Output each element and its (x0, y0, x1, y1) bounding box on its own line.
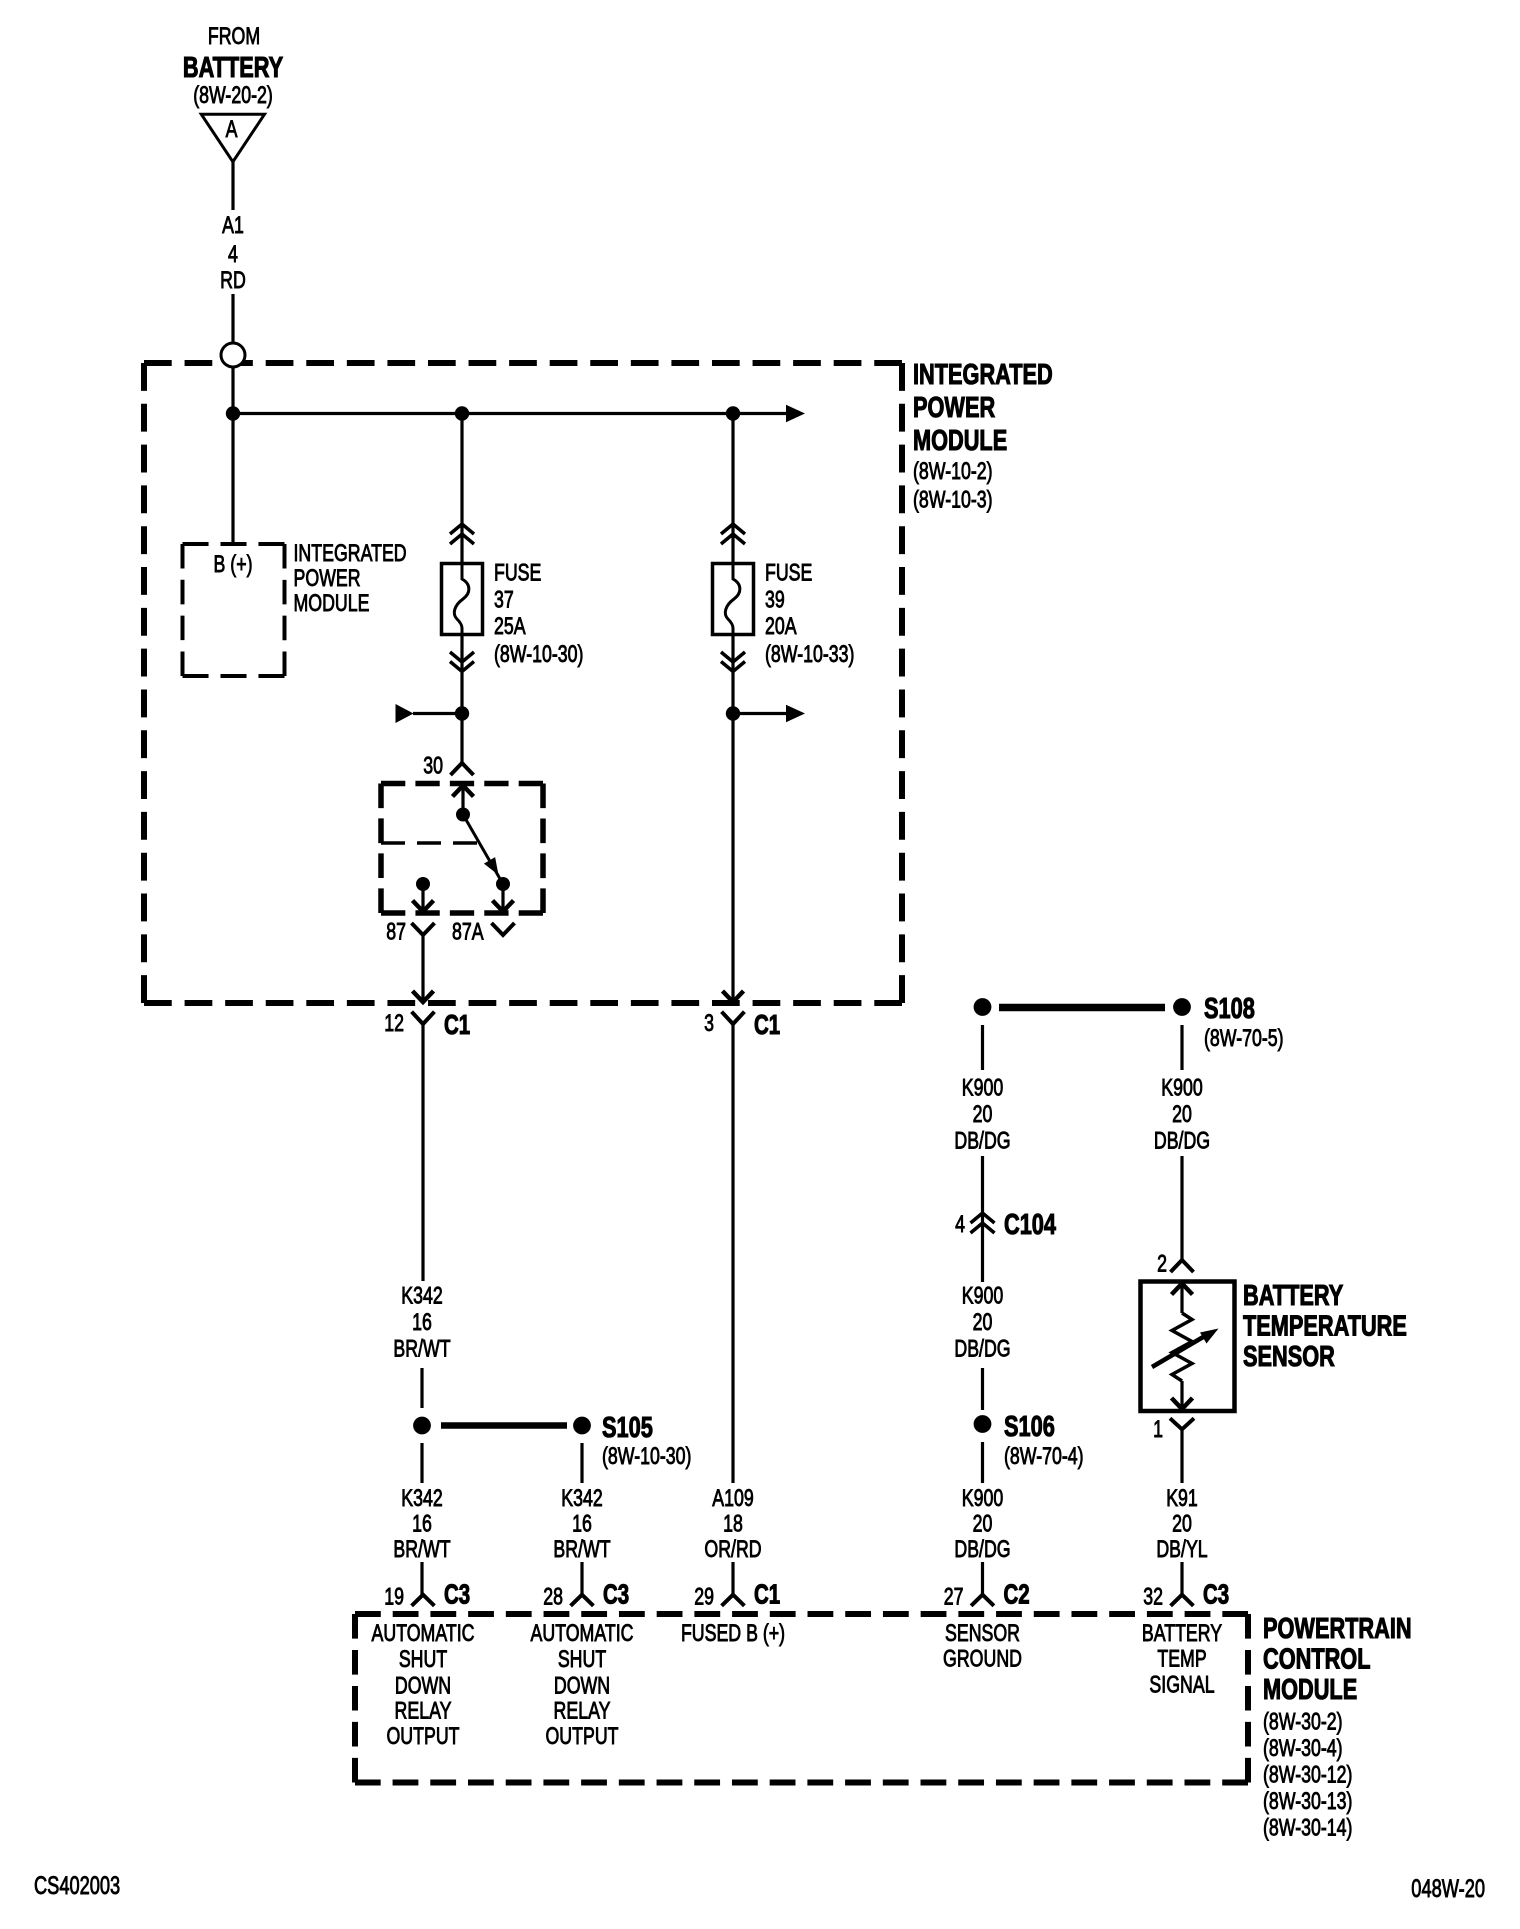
svg-text:FUSED B (+): FUSED B (+) (681, 1620, 785, 1646)
svg-text:C3: C3 (1203, 1580, 1229, 1611)
svg-text:20: 20 (973, 1310, 993, 1336)
svg-text:DB/YL: DB/YL (1156, 1537, 1208, 1563)
svg-text:(8W-10-2): (8W-10-2) (913, 459, 993, 485)
svg-text:(8W-30-4): (8W-30-4) (1263, 1736, 1343, 1762)
svg-text:1: 1 (1153, 1416, 1163, 1442)
svg-text:87: 87 (386, 919, 406, 945)
svg-text:S106: S106 (1004, 1411, 1055, 1443)
svg-text:B (+): B (+) (214, 552, 253, 578)
svg-text:(8W-10-30): (8W-10-30) (494, 642, 583, 668)
svg-text:BATTERY: BATTERY (1142, 1620, 1222, 1646)
svg-text:A1: A1 (222, 213, 244, 239)
svg-text:19: 19 (384, 1584, 404, 1610)
svg-text:C1: C1 (754, 1580, 780, 1611)
svg-text:FUSE: FUSE (494, 560, 541, 586)
svg-text:(8W-10-30): (8W-10-30) (602, 1444, 691, 1470)
svg-text:20A: 20A (765, 613, 797, 639)
svg-text:CS402003: CS402003 (34, 1871, 120, 1900)
svg-text:16: 16 (412, 1310, 432, 1336)
svg-text:20: 20 (973, 1102, 993, 1128)
svg-text:C1: C1 (444, 1010, 470, 1041)
svg-text:DB/DG: DB/DG (954, 1537, 1010, 1563)
svg-text:FROM: FROM (208, 24, 260, 50)
svg-text:(8W-20-2): (8W-20-2) (193, 83, 273, 109)
svg-text:TEMP: TEMP (1157, 1646, 1206, 1672)
svg-text:K900: K900 (962, 1283, 1003, 1309)
svg-text:SENSOR: SENSOR (945, 1620, 1020, 1646)
svg-text:C3: C3 (603, 1580, 629, 1611)
svg-text:39: 39 (765, 587, 785, 613)
svg-text:GROUND: GROUND (943, 1646, 1022, 1672)
svg-text:MODULE: MODULE (294, 591, 370, 617)
svg-text:25A: 25A (494, 613, 526, 639)
svg-text:(8W-70-4): (8W-70-4) (1004, 1444, 1084, 1470)
svg-text:(8W-10-3): (8W-10-3) (913, 487, 993, 513)
svg-text:AUTOMATIC: AUTOMATIC (372, 1620, 475, 1646)
svg-text:RELAY: RELAY (554, 1698, 611, 1724)
svg-text:S108: S108 (1204, 993, 1255, 1025)
svg-text:C3: C3 (444, 1580, 470, 1611)
svg-text:C104: C104 (1004, 1209, 1057, 1241)
svg-text:DB/DG: DB/DG (954, 1336, 1010, 1362)
svg-text:SHUT: SHUT (558, 1647, 606, 1673)
svg-text:OUTPUT: OUTPUT (545, 1724, 618, 1750)
svg-text:OR/RD: OR/RD (704, 1537, 761, 1563)
svg-text:(8W-30-14): (8W-30-14) (1263, 1815, 1352, 1841)
svg-text:2: 2 (1157, 1251, 1167, 1277)
svg-text:4: 4 (955, 1212, 965, 1238)
svg-text:FUSE: FUSE (765, 560, 812, 586)
svg-text:DB/DG: DB/DG (954, 1128, 1010, 1154)
svg-text:20: 20 (1172, 1511, 1192, 1537)
svg-text:37: 37 (494, 587, 514, 613)
svg-text:RELAY: RELAY (395, 1698, 452, 1724)
svg-text:K342: K342 (401, 1283, 442, 1309)
svg-text:DB/DG: DB/DG (1154, 1128, 1210, 1154)
svg-text:DOWN: DOWN (554, 1673, 610, 1699)
svg-text:K91: K91 (1166, 1486, 1198, 1512)
svg-text:SIGNAL: SIGNAL (1149, 1672, 1214, 1698)
svg-text:POWER: POWER (913, 392, 995, 424)
svg-text:DOWN: DOWN (395, 1673, 451, 1699)
svg-text:POWER: POWER (294, 566, 361, 592)
svg-text:S105: S105 (602, 1412, 653, 1444)
svg-text:29: 29 (694, 1584, 714, 1610)
svg-text:20: 20 (1172, 1102, 1192, 1128)
svg-text:BR/WT: BR/WT (393, 1336, 450, 1362)
svg-text:A109: A109 (712, 1486, 753, 1512)
svg-text:INTEGRATED: INTEGRATED (913, 359, 1053, 391)
svg-text:SENSOR: SENSOR (1243, 1341, 1335, 1373)
svg-text:28: 28 (543, 1584, 563, 1610)
svg-text:16: 16 (572, 1511, 592, 1537)
svg-text:POWERTRAIN: POWERTRAIN (1263, 1613, 1412, 1645)
svg-text:(8W-10-33): (8W-10-33) (765, 642, 854, 668)
svg-text:20: 20 (973, 1511, 993, 1537)
svg-text:BR/WT: BR/WT (553, 1537, 610, 1563)
svg-text:30: 30 (423, 753, 443, 779)
svg-text:K342: K342 (561, 1486, 602, 1512)
svg-text:(8W-30-2): (8W-30-2) (1263, 1709, 1343, 1735)
svg-text:MODULE: MODULE (913, 425, 1007, 457)
svg-text:18: 18 (723, 1511, 743, 1537)
svg-text:4: 4 (228, 242, 238, 268)
svg-text:K342: K342 (401, 1486, 442, 1512)
svg-text:RD: RD (220, 268, 246, 294)
svg-text:K900: K900 (962, 1075, 1003, 1101)
svg-text:048W-20: 048W-20 (1411, 1874, 1485, 1903)
svg-text:C1: C1 (754, 1010, 780, 1041)
svg-text:A: A (226, 117, 239, 143)
svg-text:SHUT: SHUT (399, 1647, 447, 1673)
svg-text:CONTROL: CONTROL (1263, 1643, 1370, 1675)
svg-text:TEMPERATURE: TEMPERATURE (1243, 1311, 1407, 1343)
svg-text:K900: K900 (962, 1486, 1003, 1512)
svg-text:BATTERY: BATTERY (183, 52, 283, 84)
svg-text:AUTOMATIC: AUTOMATIC (531, 1620, 634, 1646)
svg-text:12: 12 (384, 1010, 404, 1036)
svg-text:(8W-30-12): (8W-30-12) (1263, 1762, 1352, 1788)
svg-text:K900: K900 (1161, 1075, 1202, 1101)
svg-text:32: 32 (1143, 1584, 1163, 1610)
svg-text:BR/WT: BR/WT (393, 1537, 450, 1563)
svg-text:27: 27 (944, 1584, 964, 1610)
svg-text:3: 3 (704, 1010, 714, 1036)
svg-text:16: 16 (412, 1511, 432, 1537)
svg-text:87A: 87A (452, 919, 484, 945)
svg-text:(8W-70-5): (8W-70-5) (1204, 1026, 1284, 1052)
svg-text:C2: C2 (1004, 1580, 1030, 1611)
svg-text:BATTERY: BATTERY (1243, 1280, 1343, 1312)
svg-text:OUTPUT: OUTPUT (386, 1724, 459, 1750)
svg-text:MODULE: MODULE (1263, 1674, 1357, 1706)
svg-text:INTEGRATED: INTEGRATED (294, 540, 407, 566)
svg-text:(8W-30-13): (8W-30-13) (1263, 1789, 1352, 1815)
